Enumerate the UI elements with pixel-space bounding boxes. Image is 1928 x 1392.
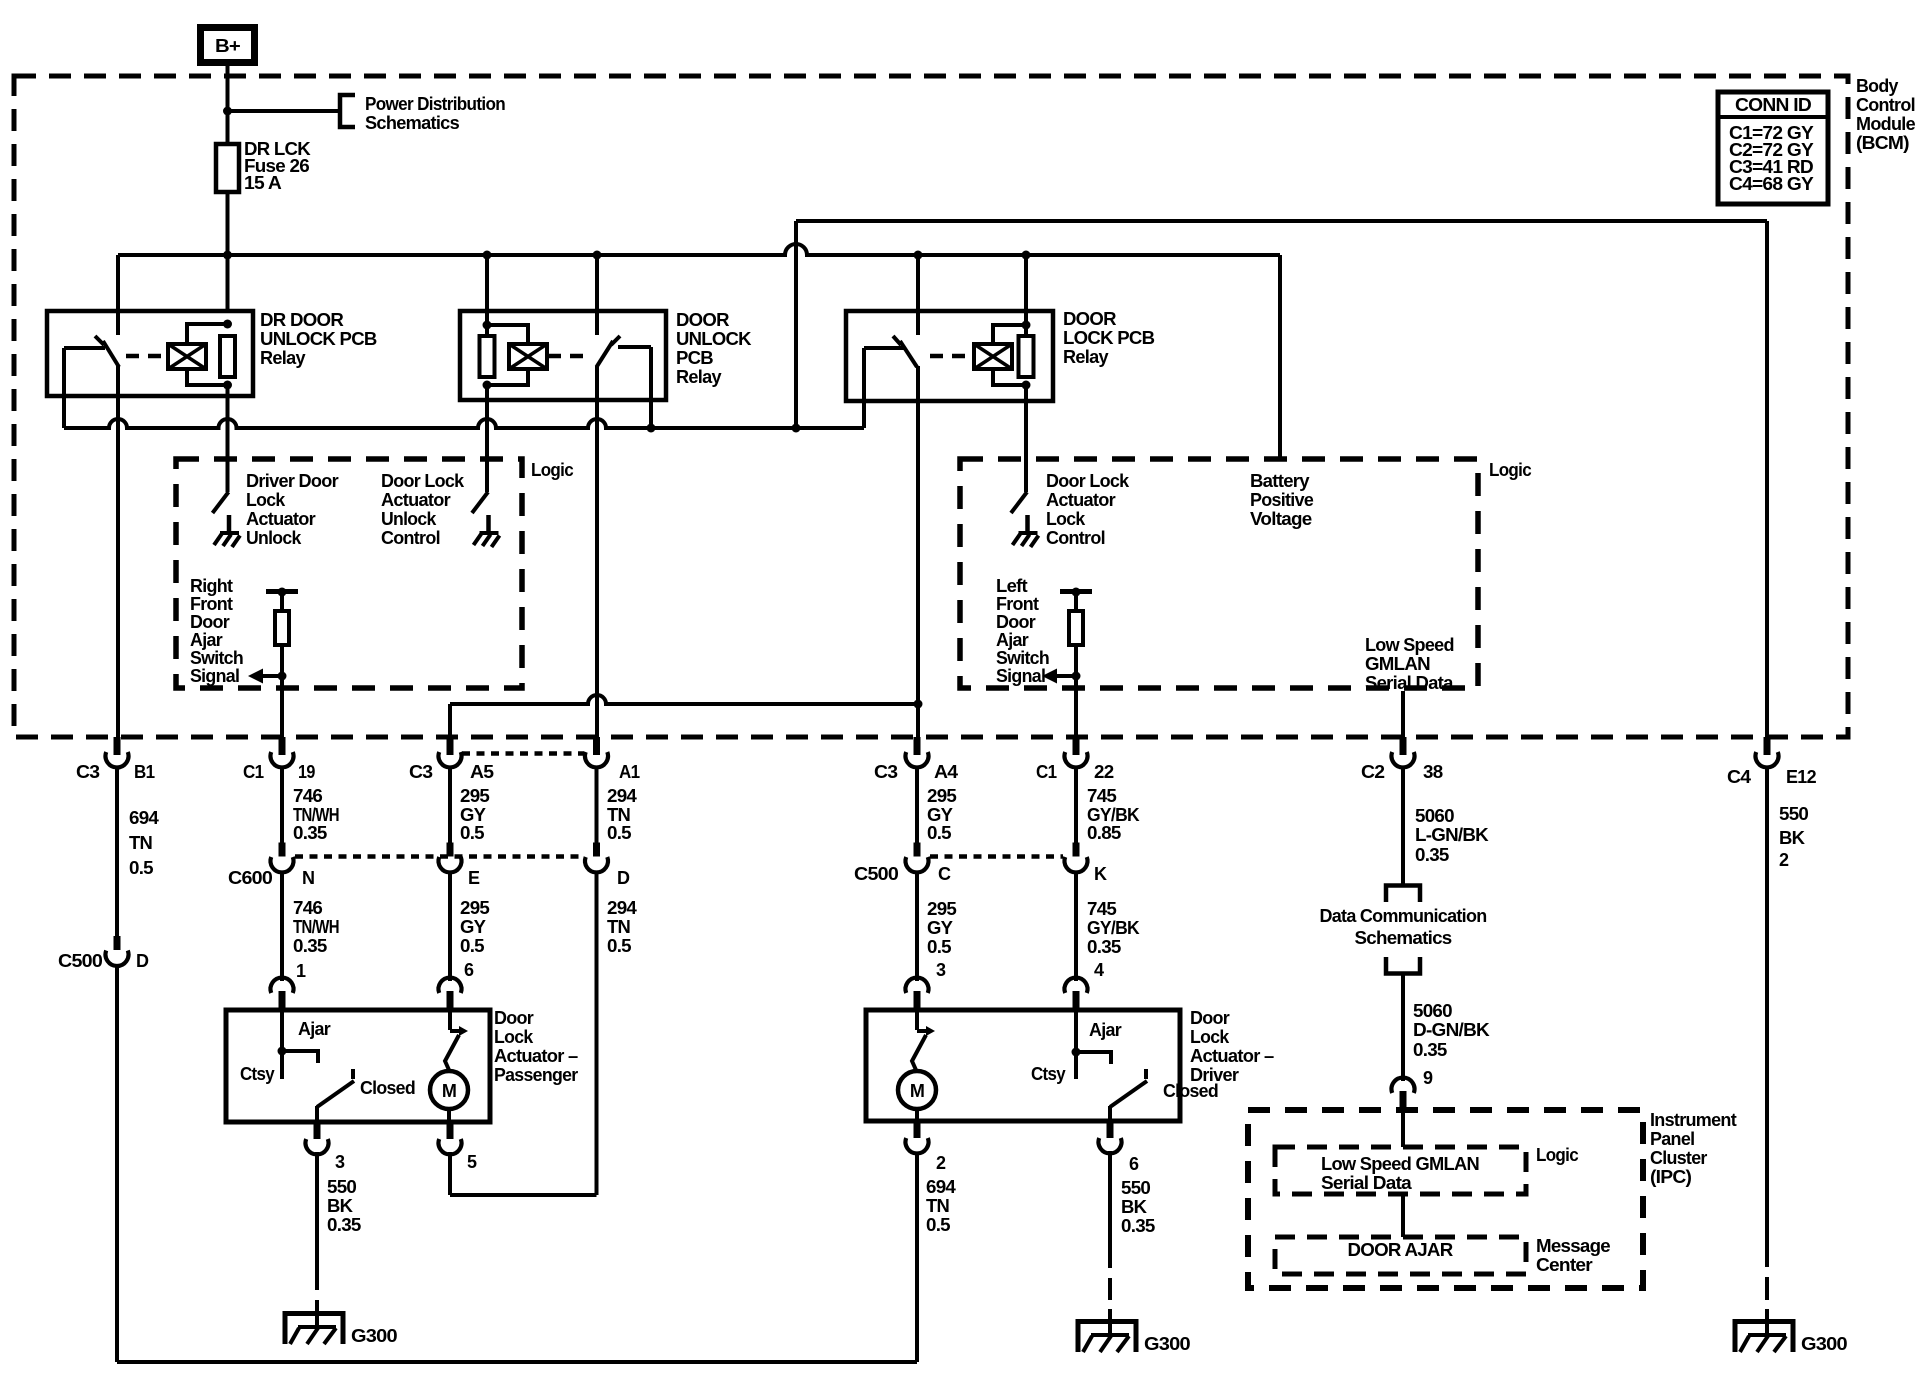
svg-text:Lock: Lock	[1046, 509, 1086, 529]
svg-text:UNLOCK: UNLOCK	[676, 329, 752, 349]
junction power-distribution tap	[223, 107, 232, 116]
svg-text:C500: C500	[58, 951, 103, 971]
connector C500 pin K	[1065, 843, 1108, 885]
svg-text:6: 6	[464, 960, 474, 980]
svg-text:745: 745	[1087, 786, 1117, 806]
ground G300 passenger	[285, 1301, 398, 1346]
svg-text:2: 2	[1779, 850, 1789, 870]
wire 550 BK 2 E12 to G300	[1767, 766, 1809, 1300]
wire 694 TN 0.5 B1 to C500 D	[117, 766, 159, 936]
svg-text:N: N	[302, 868, 314, 888]
label Body Control Module (BCM)	[1856, 76, 1916, 153]
svg-text:K: K	[1094, 864, 1107, 884]
svg-text:0.5: 0.5	[927, 937, 952, 957]
svg-text:Serial Data: Serial Data	[1321, 1173, 1413, 1193]
junction fuse-to-bus	[223, 251, 232, 260]
connector passenger actuator pin 6	[439, 960, 475, 1012]
dashed box Instrument Panel Cluster IPC	[1248, 1110, 1643, 1288]
wire 694 TN 0.5 C500 D to driver actuator pin 2	[117, 964, 917, 1362]
svg-text:Relay: Relay	[676, 367, 722, 387]
svg-text:UNLOCK PCB: UNLOCK PCB	[260, 329, 377, 349]
svg-text:Battery: Battery	[1250, 471, 1310, 491]
svg-text:D: D	[617, 868, 630, 888]
svg-text:C1: C1	[243, 762, 264, 782]
connector driver actuator pin 4	[1065, 960, 1105, 1012]
connector C2 pin 38	[1361, 737, 1443, 782]
svg-text:3: 3	[936, 960, 946, 980]
svg-text:0.85: 0.85	[1087, 823, 1121, 843]
wire 295 GY 0.5 C to driver actuator pin 3	[917, 871, 957, 981]
svg-text:C4: C4	[1727, 767, 1751, 787]
switch driver door closed contact	[1110, 1069, 1218, 1121]
svg-text:E: E	[468, 868, 480, 888]
svg-text:TN: TN	[607, 805, 630, 825]
svg-text:Ctsy: Ctsy	[240, 1064, 275, 1084]
svg-text:Switch: Switch	[996, 648, 1049, 668]
svg-text:E12: E12	[1786, 767, 1817, 787]
svg-text:DR DOOR: DR DOOR	[260, 310, 344, 330]
wire 746 TN/WH 0.35 pin 19 to C600 N	[282, 766, 339, 843]
svg-text:BK: BK	[1121, 1197, 1147, 1217]
svg-text:TN: TN	[926, 1196, 949, 1216]
motor M passenger door lock actuator	[430, 1012, 468, 1122]
svg-text:Ajar: Ajar	[1089, 1020, 1122, 1040]
svg-text:Passenger: Passenger	[494, 1065, 578, 1085]
resistor left front door ajar switch signal pull-up	[1060, 588, 1092, 756]
dashed box DOOR AJAR message	[1275, 1237, 1526, 1274]
connector passenger actuator pin 1	[271, 961, 307, 1012]
connector C500 pin C	[854, 843, 951, 885]
svg-text:Switch: Switch	[190, 648, 243, 668]
svg-text:CONN ID: CONN ID	[1735, 95, 1812, 115]
switch passenger door ajar Ctsy contact	[240, 1012, 331, 1084]
svg-text:A1: A1	[619, 762, 640, 782]
switch driver door lock actuator unlock with ground	[213, 471, 339, 548]
box Door Lock Actuator - Driver	[866, 1008, 1274, 1121]
svg-text:C500: C500	[854, 864, 899, 884]
svg-text:G300: G300	[1801, 1334, 1848, 1354]
connector driver actuator pin 6	[1099, 1121, 1140, 1174]
wire pin 9 to IPC GMLAN logic	[1401, 1112, 1405, 1147]
svg-text:(BCM): (BCM)	[1856, 133, 1910, 153]
wire GMLAN logic to door ajar display	[1401, 1194, 1405, 1237]
svg-text:B+: B+	[215, 36, 240, 56]
svg-text:DOOR AJAR: DOOR AJAR	[1348, 1240, 1454, 1260]
label Instrument Panel Cluster (IPC)	[1650, 1110, 1737, 1187]
dashed box IPC low speed GMLAN serial data	[1275, 1147, 1526, 1194]
svg-text:5060: 5060	[1413, 1001, 1453, 1021]
wire ground return riser to relay commons	[794, 221, 798, 428]
connector passenger actuator pin 5	[439, 1122, 478, 1172]
svg-text:Signal: Signal	[996, 666, 1045, 686]
svg-text:Control: Control	[1046, 528, 1105, 548]
svg-text:BK: BK	[1779, 828, 1805, 848]
connector C600 pin E	[439, 843, 481, 889]
svg-text:0.35: 0.35	[1087, 937, 1121, 957]
ground G300 driver	[1078, 1309, 1191, 1354]
svg-text:Actuator –: Actuator –	[494, 1046, 578, 1066]
svg-text:Low Speed GMLAN: Low Speed GMLAN	[1321, 1154, 1479, 1174]
svg-text:Logic: Logic	[531, 460, 574, 480]
connector C4 pin E12	[1727, 737, 1817, 787]
svg-text:Actuator: Actuator	[381, 490, 451, 510]
svg-text:Lock: Lock	[1190, 1027, 1230, 1047]
svg-text:2: 2	[936, 1153, 946, 1173]
svg-text:Door: Door	[996, 612, 1036, 632]
svg-text:Door Lock: Door Lock	[381, 471, 465, 491]
svg-text:C2: C2	[1361, 762, 1385, 782]
connector C500 pin D	[58, 936, 149, 971]
svg-text:Driver Door: Driver Door	[246, 471, 339, 491]
svg-text:TN: TN	[607, 917, 630, 937]
connector driver actuator pin 2	[905, 1121, 946, 1173]
svg-text:Power Distribution: Power Distribution	[365, 94, 505, 114]
junction ajar signal arrow tap	[278, 672, 287, 681]
svg-text:Control: Control	[1856, 95, 1915, 115]
wire 294 TN 0.5 D to passenger actuator pin 5	[450, 871, 637, 1195]
svg-text:D-GN/BK: D-GN/BK	[1413, 1020, 1490, 1040]
svg-text:L-GN/BK: L-GN/BK	[1415, 825, 1489, 845]
wire K1 switch common to C3 B1	[116, 366, 120, 737]
connector C1 pin 19	[243, 737, 315, 782]
wire B+ bus	[118, 244, 1280, 255]
wire 295 GY 0.5 A5 to E	[450, 766, 490, 843]
svg-text:Serial Data: Serial Data	[1365, 673, 1454, 693]
svg-text:GY/BK: GY/BK	[1087, 805, 1140, 825]
svg-text:DOOR: DOOR	[1063, 309, 1117, 329]
svg-text:0.35: 0.35	[327, 1215, 361, 1235]
svg-text:Door: Door	[190, 612, 230, 632]
svg-text:TN: TN	[129, 833, 152, 853]
wire 295 GY 0.5 A4 to C500 C	[917, 766, 957, 843]
svg-text:Front: Front	[190, 594, 233, 614]
svg-text:745: 745	[1087, 899, 1117, 919]
svg-text:Lock: Lock	[246, 490, 286, 510]
bracket data communication schematics reference	[1320, 886, 1487, 974]
svg-text:Panel: Panel	[1650, 1129, 1694, 1149]
svg-text:0.5: 0.5	[607, 936, 632, 956]
svg-text:GY: GY	[927, 918, 953, 938]
power symbol B+ battery feed	[201, 28, 255, 63]
svg-text:Door: Door	[494, 1008, 534, 1028]
svg-text:Actuator: Actuator	[1046, 490, 1116, 510]
svg-text:C: C	[938, 864, 951, 884]
wire A5 to A4 tie	[450, 695, 918, 737]
svg-text:0.5: 0.5	[129, 858, 154, 878]
svg-text:LOCK PCB: LOCK PCB	[1063, 328, 1155, 348]
wire K3 switch common to A4	[916, 366, 920, 755]
wire K1 coil to unlock actuator switch	[226, 385, 230, 492]
connector driver actuator pin 3	[905, 960, 946, 1012]
svg-text:Front: Front	[996, 594, 1039, 614]
svg-text:Relay: Relay	[260, 348, 306, 368]
wire 745 GY/BK 0.35 K to driver actuator pin 4	[1076, 871, 1140, 981]
svg-text:M: M	[442, 1081, 456, 1101]
junction K2 stub to common bus	[647, 424, 656, 433]
wire 294 TN 0.5 A1 to D	[597, 766, 637, 843]
wire K2 coil to unlock-control switch	[485, 385, 489, 492]
svg-text:Unlock: Unlock	[381, 509, 437, 529]
svg-text:0.35: 0.35	[1413, 1040, 1447, 1060]
bracket Power Distribution Schematics off-page reference	[340, 94, 505, 133]
wire battery positive voltage feed	[1278, 255, 1282, 459]
svg-text:4: 4	[1094, 960, 1104, 980]
svg-text:G300: G300	[351, 1326, 398, 1346]
svg-text:0.5: 0.5	[460, 936, 485, 956]
svg-text:295: 295	[927, 786, 957, 806]
svg-text:Closed: Closed	[1163, 1081, 1218, 1101]
ground G300 BCM	[1735, 1309, 1848, 1354]
svg-text:5060: 5060	[1415, 806, 1455, 826]
svg-text:Left: Left	[996, 576, 1028, 596]
svg-text:Ctsy: Ctsy	[1031, 1064, 1066, 1084]
junction bus to K3 switch	[914, 251, 923, 260]
svg-text:C3: C3	[409, 762, 433, 782]
svg-text:C1: C1	[1036, 762, 1057, 782]
svg-text:Logic: Logic	[1536, 1145, 1579, 1165]
svg-text:Door Lock: Door Lock	[1046, 471, 1130, 491]
switch passenger door closed contact	[317, 1069, 415, 1122]
connector IPC pin 9	[1392, 1068, 1434, 1112]
svg-text:C3: C3	[874, 762, 898, 782]
svg-text:TN/WH: TN/WH	[293, 917, 339, 937]
junction bus to K3 coil	[1022, 251, 1031, 260]
svg-text:295: 295	[927, 899, 957, 919]
wire 5060 D-GN/BK 0.35 bracket to IPC pin 9	[1403, 974, 1490, 1081]
wire 746 TN/WH 0.35 N to passenger actuator pin 1	[282, 871, 339, 981]
svg-text:Instrument: Instrument	[1650, 1110, 1737, 1130]
svg-text:0.35: 0.35	[1121, 1216, 1155, 1236]
svg-text:GY: GY	[927, 805, 953, 825]
svg-text:Lock: Lock	[494, 1027, 534, 1047]
svg-text:0.35: 0.35	[293, 936, 327, 956]
relay K1 DR DOOR UNLOCK PCB Relay	[47, 255, 377, 428]
svg-text:550: 550	[327, 1177, 357, 1197]
svg-text:0.5: 0.5	[926, 1215, 951, 1235]
junction left ajar signal arrow tap	[1072, 672, 1081, 681]
svg-text:Voltage: Voltage	[1250, 509, 1312, 529]
svg-text:C4=68 GY: C4=68 GY	[1729, 174, 1814, 194]
svg-text:GMLAN: GMLAN	[1365, 654, 1430, 674]
svg-text:0.35: 0.35	[1415, 845, 1449, 865]
svg-text:5: 5	[467, 1152, 477, 1172]
resistor right front door ajar switch signal pull-up	[266, 588, 298, 756]
svg-text:Positive: Positive	[1250, 490, 1314, 510]
svg-text:Actuator: Actuator	[246, 509, 316, 529]
svg-text:Closed: Closed	[360, 1078, 415, 1098]
svg-text:294: 294	[607, 786, 637, 806]
svg-text:550: 550	[1121, 1178, 1151, 1198]
wire relay common ground bus	[64, 419, 864, 428]
wire 295 GY 0.5 E to passenger actuator pin 6	[450, 871, 490, 981]
svg-text:295: 295	[460, 898, 490, 918]
svg-text:Ajar: Ajar	[190, 630, 223, 650]
svg-text:694: 694	[926, 1177, 956, 1197]
svg-text:Message: Message	[1536, 1236, 1611, 1256]
fuse F26 DR LCK 15A	[216, 139, 311, 193]
svg-text:Ajar: Ajar	[996, 630, 1029, 650]
dotted tie A5 to A1	[462, 751, 584, 756]
svg-text:C3: C3	[76, 762, 100, 782]
dashed box BCM passenger logic	[960, 459, 1478, 688]
svg-text:694: 694	[129, 808, 159, 828]
junction riser to common bus	[792, 424, 801, 433]
svg-text:Low Speed: Low Speed	[1365, 635, 1454, 655]
motor M driver door lock actuator	[898, 1012, 936, 1121]
svg-text:DOOR: DOOR	[676, 310, 730, 330]
svg-text:Logic: Logic	[1489, 460, 1532, 480]
table CONN ID	[1718, 92, 1828, 204]
connector C3 pin A5	[409, 737, 494, 782]
svg-text:Schematics: Schematics	[1355, 928, 1453, 948]
connector C3 pin B1	[76, 737, 155, 782]
svg-text:TN/WH: TN/WH	[293, 805, 339, 825]
label 694 TN 0.5 driver pin 2	[926, 1177, 956, 1235]
wire ground return drop to E12	[1765, 221, 1769, 737]
svg-text:GY/BK: GY/BK	[1087, 918, 1140, 938]
svg-text:9: 9	[1423, 1068, 1433, 1088]
svg-text:C600: C600	[228, 868, 273, 888]
arrow right front door ajar switch signal	[190, 576, 282, 686]
svg-text:0.5: 0.5	[927, 823, 952, 843]
junction bus to K2 coil	[483, 251, 492, 260]
wire 550 BK 0.35 driver pin 6 to G300	[1110, 1151, 1155, 1300]
svg-text:Unlock: Unlock	[246, 528, 302, 548]
svg-text:BK: BK	[327, 1196, 353, 1216]
svg-text:M: M	[910, 1081, 924, 1101]
wire 745 GY/BK 0.85 pin 22 to C500 K	[1076, 766, 1140, 843]
svg-text:A5: A5	[470, 762, 494, 782]
wire GMLAN to C2 38	[1401, 691, 1405, 755]
svg-text:0.5: 0.5	[607, 823, 632, 843]
dashed box Body Control Module (BCM) border	[14, 76, 1848, 737]
wire passenger pin 5 jog to D	[0, 0, 1, 1]
label Message Center	[1536, 1236, 1611, 1275]
svg-text:B1: B1	[134, 762, 155, 782]
label low speed GMLAN serial data BCM	[1365, 635, 1454, 693]
label battery positive voltage	[1250, 471, 1314, 529]
relay K2 DOOR UNLOCK PCB Relay	[460, 255, 752, 428]
dashed box BCM driver logic	[176, 459, 522, 688]
svg-text:D: D	[136, 951, 149, 971]
svg-text:0.5: 0.5	[460, 823, 485, 843]
wire K3 coil to lock-control switch	[1024, 385, 1028, 492]
svg-text:GY: GY	[460, 805, 486, 825]
wire 5060 L-GN/BK 0.35 pin 38 to data bracket	[1403, 766, 1489, 885]
svg-text:295: 295	[460, 786, 490, 806]
connector C1 pin 22	[1036, 737, 1114, 782]
svg-text:Signal: Signal	[190, 666, 239, 686]
svg-text:G300: G300	[1144, 1334, 1191, 1354]
connector passenger actuator pin 3	[305, 1122, 345, 1172]
svg-text:Actuator –: Actuator –	[1190, 1046, 1274, 1066]
svg-text:Data Communication: Data Communication	[1320, 906, 1487, 926]
svg-text:Relay: Relay	[1063, 347, 1109, 367]
svg-text:6: 6	[1129, 1154, 1139, 1174]
svg-text:550: 550	[1779, 804, 1809, 824]
wire tap to power-distribution bracket	[228, 109, 341, 113]
svg-text:A4: A4	[934, 762, 958, 782]
wire 550 BK 0.35 pin 3 to G300	[317, 1152, 361, 1312]
connector C600 pin D	[585, 843, 630, 889]
wire K2 switch common to A1	[595, 366, 599, 755]
svg-text:294: 294	[607, 898, 637, 918]
svg-text:15 A: 15 A	[244, 173, 282, 193]
svg-text:Center: Center	[1536, 1255, 1593, 1275]
svg-text:Door: Door	[1190, 1008, 1230, 1028]
box Door Lock Actuator - Passenger	[226, 1008, 578, 1122]
connector C600 pin N	[228, 843, 314, 889]
switch door lock actuator lock control with ground	[1011, 471, 1130, 548]
dotted tie N to E to D	[295, 854, 584, 859]
svg-text:0.35: 0.35	[293, 823, 327, 843]
svg-text:38: 38	[1423, 762, 1443, 782]
wire fuse to relay K1 coil	[226, 192, 230, 336]
switch driver door ajar Ctsy contact	[1031, 1012, 1122, 1084]
svg-text:(IPC): (IPC)	[1650, 1167, 1692, 1187]
svg-text:PCB: PCB	[676, 348, 714, 368]
svg-text:3: 3	[335, 1152, 345, 1172]
connector C3 pin A4	[874, 737, 958, 782]
svg-text:746: 746	[293, 786, 323, 806]
svg-text:Control: Control	[381, 528, 440, 548]
svg-text:19: 19	[298, 762, 315, 782]
svg-text:GY: GY	[460, 917, 486, 937]
wire ground return top line	[796, 219, 1767, 223]
svg-text:22: 22	[1094, 762, 1114, 782]
switch door lock actuator unlock control with ground	[381, 471, 500, 548]
junction A5 tie into A4 wire	[914, 700, 923, 709]
wire B+ to fuse F26	[226, 66, 230, 144]
svg-text:1: 1	[296, 961, 306, 981]
junction bus to K2 switch	[593, 251, 602, 260]
relay K3 DOOR LOCK PCB Relay	[846, 255, 1155, 428]
svg-text:Schematics: Schematics	[365, 113, 460, 133]
svg-text:746: 746	[293, 898, 323, 918]
svg-text:Cluster: Cluster	[1650, 1148, 1707, 1168]
arrow left front door ajar switch signal	[996, 576, 1076, 686]
svg-text:Ajar: Ajar	[298, 1019, 331, 1039]
connector pin A1	[585, 737, 640, 782]
svg-text:Body: Body	[1856, 76, 1898, 96]
dotted tie C to K	[930, 854, 1063, 859]
svg-text:Module: Module	[1856, 114, 1916, 134]
svg-text:Right: Right	[190, 576, 233, 596]
